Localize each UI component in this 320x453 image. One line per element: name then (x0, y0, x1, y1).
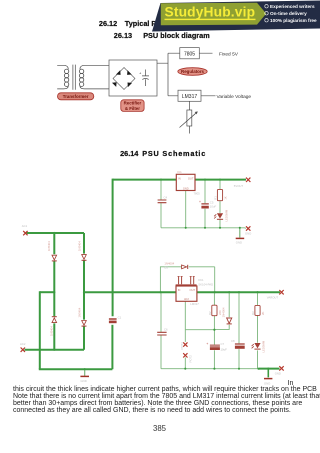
wire C4 branch (160, 180, 162, 228)
LM317 block (178, 90, 201, 101)
node vout-C8 (238, 291, 240, 293)
svg-text:R3: R3 (251, 311, 255, 315)
svg-text:GND: GND (275, 371, 281, 375)
svg-text:SK104-PAD: SK104-PAD (198, 282, 213, 286)
node gnd-pot (184, 368, 186, 370)
capacitor in filter (142, 70, 149, 87)
op-amp U1 7805 regulator box (176, 170, 195, 191)
node POT pad 1 (183, 342, 187, 346)
wire rectifier to split (157, 53, 168, 96)
diode D6 (227, 318, 232, 324)
wire bridge column2 (83, 233, 85, 350)
ground 2 (80, 375, 89, 377)
wire AC1 top (27, 232, 85, 234)
wire LM317 output rail (197, 291, 280, 293)
svg-text:LED5MM: LED5MM (262, 340, 266, 352)
node plus-D5C6 (160, 291, 162, 293)
capacitor C8 polarized (235, 344, 245, 349)
Transformer annotation (58, 93, 94, 100)
svg-text:OUT: OUT (190, 288, 196, 292)
potentiometer (180, 101, 198, 133)
svg-text:Variable Voltage: Variable Voltage (217, 94, 252, 100)
diode D1 (52, 255, 57, 261)
wire C5 branch (204, 180, 206, 228)
node vout-D6 (228, 291, 230, 293)
svg-text:IN: IN (178, 288, 181, 292)
svg-text:IN: IN (178, 176, 181, 180)
transformer T1 (57, 65, 109, 90)
wire 7805 gnd pin (185, 191, 187, 228)
svg-text:1N5404: 1N5404 (77, 307, 81, 317)
node AC1 pad (23, 231, 27, 235)
svg-text:5VOUT: 5VOUT (234, 184, 244, 188)
node AC2-col1 (53, 349, 55, 351)
node gnd-LED2 (258, 368, 260, 370)
svg-text:StudyHub.vip: StudyHub.vip (165, 5, 256, 20)
svg-text:1N5404: 1N5404 (47, 241, 51, 251)
wire bridge minus stub (40, 291, 55, 293)
diode D3 (52, 317, 57, 323)
wire C8 branch (238, 292, 240, 369)
node gnd-sym1 (239, 227, 241, 229)
svg-text:LM317: LM317 (190, 302, 199, 306)
op-amp U2 LM317 regulator box (176, 286, 197, 301)
node 5VOUT pad (246, 178, 250, 182)
svg-text:Experienced writers: Experienced writers (270, 4, 315, 9)
capacitor C7 polarized (206, 342, 220, 350)
node gnd-C5 (204, 227, 206, 229)
node gnd-C8 (238, 368, 240, 370)
svg-text:Regulators: Regulators (181, 69, 204, 74)
node gnd-sym2 (84, 368, 86, 370)
node plus-col2 (83, 291, 85, 293)
node gnd-7805 (185, 227, 187, 229)
svg-text:7805: 7805 (184, 52, 195, 58)
svg-text:IC1: IC1 (177, 170, 182, 174)
node gnd-sym3 (267, 368, 269, 370)
wire R3 LED2 branch (257, 292, 259, 369)
node gnd-C7 (213, 368, 215, 370)
wire R2 branch (213, 292, 215, 330)
svg-text:C4: C4 (164, 196, 168, 200)
svg-text:10uF: 10uF (210, 205, 217, 209)
node AC1-col1 (53, 232, 55, 234)
7805 block (180, 48, 200, 59)
wire main vertical V+ (112, 179, 114, 317)
wire R1 LED1 branch (219, 180, 221, 228)
wire right GND rail (161, 368, 259, 370)
wire bridge column1 (53, 233, 55, 350)
bridge diamond (113, 68, 135, 90)
node in-C4 (160, 179, 162, 181)
wire 7805 input rail (113, 179, 177, 181)
diode D5 (182, 265, 188, 269)
wire LM317 adj (185, 301, 214, 329)
LED LED1 (214, 213, 223, 219)
capacitor C6 (157, 332, 166, 335)
wire D5 loop (160, 267, 214, 292)
resistor R3 (255, 305, 260, 315)
wire AC2 (25, 349, 85, 351)
Regulators annotation (178, 68, 207, 76)
rectifier-filter box (109, 60, 157, 96)
svg-text:1N5404: 1N5404 (77, 241, 81, 251)
svg-text:+: + (199, 200, 201, 204)
svg-text:1N5404: 1N5404 (50, 326, 54, 336)
node minus-col1 (53, 291, 55, 293)
ground 1 (236, 237, 245, 239)
svg-text:Transformer: Transformer (63, 94, 89, 99)
wire pot stub 1 (184, 330, 186, 342)
svg-text:2K: 2K (261, 311, 265, 315)
Rectifier &amp; Filter annotation (121, 100, 144, 112)
wire gnd3 stub (267, 369, 269, 378)
node GND pad right (279, 366, 283, 370)
wire to LM317 (168, 95, 216, 97)
capacitor C4 (158, 200, 167, 203)
diode D2 (82, 255, 87, 261)
svg-text:GND: GND (183, 186, 189, 190)
svg-text:D5: D5 (164, 266, 168, 270)
svg-text:R2: R2 (208, 311, 212, 315)
svg-text:GND: GND (245, 231, 251, 235)
svg-text:1N4004: 1N4004 (222, 307, 226, 317)
wire gnd1 stub (239, 228, 241, 238)
node POT pad 2 (183, 353, 187, 357)
svg-text:C7: C7 (221, 342, 225, 346)
wire right GND stub (259, 368, 280, 370)
svg-text:ADJ: ADJ (184, 297, 190, 301)
wire left vertical GND (39, 291, 41, 369)
node gnd-LED1 (219, 227, 221, 229)
wire C7 branch (213, 330, 215, 369)
svg-text:R1: R1 (214, 196, 218, 200)
node out-R1 (219, 179, 221, 181)
wire C1 bottom (111, 325, 113, 369)
capacitor C5 polarized (199, 200, 209, 209)
node GND pad mid (246, 226, 250, 230)
svg-text:POT2: POT2 (189, 355, 193, 363)
wire to 7805 (168, 52, 213, 54)
svg-text:100% plagiarism free: 100% plagiarism free (270, 18, 317, 23)
svg-text:220: 220 (218, 310, 222, 315)
svg-text:& Filter: & Filter (125, 106, 140, 111)
svg-text:AC2: AC2 (20, 342, 26, 346)
svg-text:LED5MM: LED5MM (224, 209, 228, 221)
svg-text:GND: GND (81, 379, 87, 383)
wire V+ rail to LM317 (84, 291, 176, 293)
node adj (213, 329, 215, 331)
capacitor C1 main (109, 318, 117, 323)
wire left GND rail (39, 368, 113, 370)
svg-text:+: + (206, 342, 208, 346)
svg-text:7805: 7805 (194, 191, 201, 195)
node VAROUT pad (279, 290, 283, 294)
node plus-main (112, 291, 114, 293)
node vout-D5 (214, 291, 216, 293)
resistor R1 (217, 189, 222, 200)
wire gnd2 stub (84, 369, 86, 376)
svg-text:C8: C8 (231, 339, 235, 343)
svg-text:VAROUT: VAROUT (267, 296, 279, 300)
wire 7805 gnd rail (161, 227, 246, 230)
svg-text:10uF: 10uF (221, 348, 228, 352)
svg-text:+: + (139, 71, 142, 76)
resistor R2 (212, 305, 217, 316)
svg-text:GND: GND (236, 240, 242, 244)
node out-C5 (204, 179, 206, 181)
wire 7805 output rail (195, 179, 246, 181)
svg-text:OUT: OUT (188, 176, 194, 180)
svg-text:GND: GND (264, 381, 270, 385)
node vout-R3 (256, 291, 258, 293)
svg-text:C1: C1 (118, 316, 122, 320)
wire C6 branch (160, 292, 162, 369)
svg-text:LM317: LM317 (182, 94, 198, 100)
wire D6 branch (214, 292, 229, 329)
svg-text:1K: 1K (224, 196, 228, 200)
svg-text:AC1: AC1 (22, 224, 28, 228)
svg-text:C6: C6 (164, 327, 168, 331)
ground 3 (264, 378, 272, 380)
diode D4 (82, 321, 87, 327)
LED LED2 (252, 343, 261, 349)
wire pot stub 2 (184, 358, 186, 369)
node AC2 pad (21, 348, 25, 352)
svg-text:On-time delivery: On-time delivery (270, 11, 307, 16)
svg-text:Fixed 5V: Fixed 5V (219, 51, 239, 57)
svg-text:POT1: POT1 (180, 342, 184, 350)
heatsink KK1 (176, 276, 197, 285)
